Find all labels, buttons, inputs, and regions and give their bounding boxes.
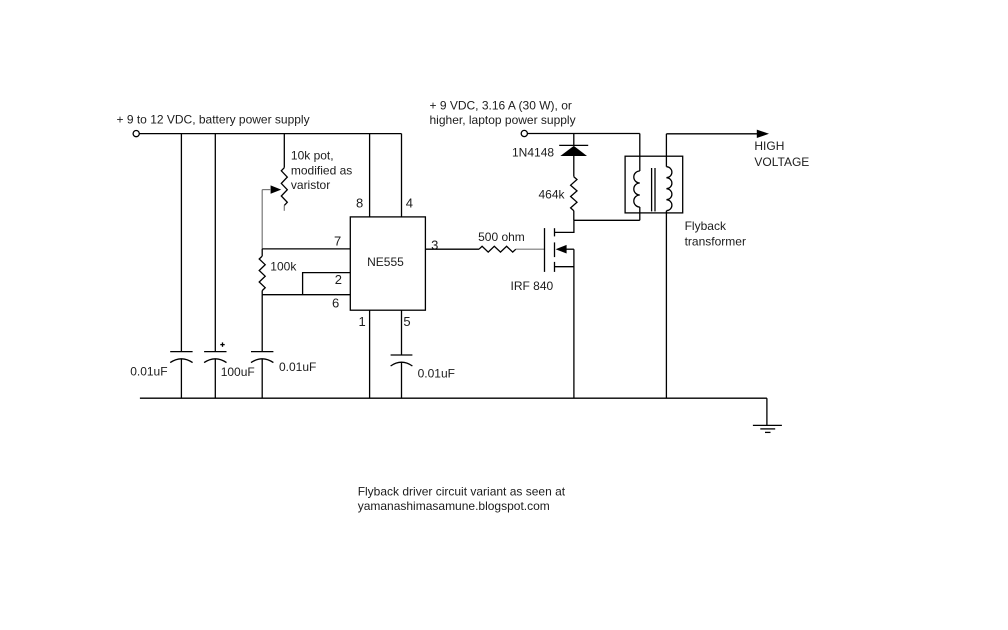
capacitor C1 0.01uF [170, 351, 192, 353]
diode D1 1N4148 [573, 134, 575, 146]
wire ground drop [766, 398, 768, 425]
svg-text:higher, laptop power supply: higher, laptop power supply [430, 113, 576, 127]
C2 polarity + [220, 344, 224, 346]
T1 primary lead out [639, 207, 641, 220]
svg-text:5: 5 [403, 314, 410, 329]
laptop + terminal [521, 130, 527, 136]
capacitor C4 0.01uF [391, 354, 413, 356]
svg-text:Flyback driver circuit variant: Flyback driver circuit variant as seen a… [358, 484, 566, 498]
wire pin 2 loop [303, 273, 351, 295]
wire pin 5 [401, 310, 403, 355]
wire C1 riser [180, 134, 182, 352]
Q1 source tap [555, 266, 574, 268]
wire C2 riser [214, 134, 216, 352]
wire laptop rail [528, 133, 640, 135]
svg-text:6: 6 [332, 296, 339, 311]
wire pin 3 [425, 248, 479, 250]
svg-text:4: 4 [406, 196, 413, 211]
wire wiper to pin7 rail [261, 190, 264, 249]
svg-text:500 ohm: 500 ohm [478, 230, 525, 244]
wire source to ground [573, 249, 575, 398]
wire rail to C3 [261, 295, 263, 352]
svg-text:+ 9 to 12 VDC, battery power s: + 9 to 12 VDC, battery power supply [117, 113, 310, 127]
svg-text:NE555: NE555 [367, 255, 404, 269]
svg-text:0.01uF: 0.01uF [279, 360, 316, 374]
T1 primary winding [634, 171, 640, 207]
svg-text:1: 1 [359, 314, 366, 329]
wire gate [516, 248, 545, 250]
ground bus [140, 397, 767, 399]
pin 8 riser [369, 134, 371, 217]
svg-text:2: 2 [335, 272, 342, 287]
T1 secondary lead up [665, 134, 667, 167]
wire high voltage output [666, 133, 757, 135]
svg-text:0.01uF: 0.01uF [130, 365, 167, 379]
svg-text:yamanashimasamune.blogspot.com: yamanashimasamune.blogspot.com [358, 499, 550, 513]
Q1 body arrow [556, 245, 567, 254]
svg-text:464k: 464k [539, 188, 566, 202]
svg-text:100k: 100k [270, 259, 297, 273]
T1 primary lead in [639, 134, 641, 172]
ground symbol [753, 424, 782, 426]
HV arrowhead [757, 130, 769, 138]
svg-text:0.01uF: 0.01uF [418, 366, 455, 380]
svg-text:VOLTAGE: VOLTAGE [754, 155, 809, 169]
svg-text:modified as: modified as [291, 163, 352, 177]
battery + terminal [133, 131, 139, 137]
svg-text:8: 8 [356, 196, 363, 211]
svg-text:HIGH: HIGH [754, 139, 784, 153]
Q1 channel dashes [554, 228, 556, 236]
svg-text:7: 7 [334, 234, 341, 249]
op IC U1 NE555 [350, 217, 425, 310]
wire pin 6 [262, 294, 350, 296]
capacitor C3 0.01uF [251, 351, 273, 353]
svg-text:3: 3 [431, 238, 438, 253]
transformer T1 box [625, 156, 683, 213]
svg-text:100uF: 100uF [221, 365, 255, 379]
wire battery top rail [139, 133, 401, 135]
potentiometer R1 10k [281, 168, 287, 206]
pot wiper arrow [271, 185, 282, 193]
transistor Q1 IRF 840 gate bar [544, 228, 546, 272]
Q1 drain tap [555, 220, 574, 232]
resistor R4 464k [571, 177, 577, 211]
T1 core [651, 168, 653, 211]
wire pin 7 [262, 248, 350, 250]
svg-text:10k pot,: 10k pot, [291, 149, 334, 163]
svg-text:Flyback: Flyback [685, 219, 727, 233]
resistor R2 100k [261, 249, 263, 256]
capacitor C2 100uF [204, 351, 226, 353]
svg-text:varistor: varistor [291, 178, 330, 192]
wire pot riser [283, 134, 285, 168]
svg-text:+ 9 VDC, 3.16 A (30 W), or: + 9 VDC, 3.16 A (30 W), or [430, 98, 572, 112]
wire pin 1 to ground [369, 310, 371, 398]
wire drain junction [574, 219, 640, 221]
svg-text:1N4148: 1N4148 [512, 145, 554, 159]
svg-text:IRF 840: IRF 840 [511, 279, 554, 293]
T1 secondary lead to ground [665, 211, 667, 399]
T1 secondary winding [666, 167, 672, 211]
pin 4 riser [401, 134, 403, 217]
resistor R3 500 ohm [479, 246, 516, 252]
svg-text:transformer: transformer [685, 234, 746, 248]
